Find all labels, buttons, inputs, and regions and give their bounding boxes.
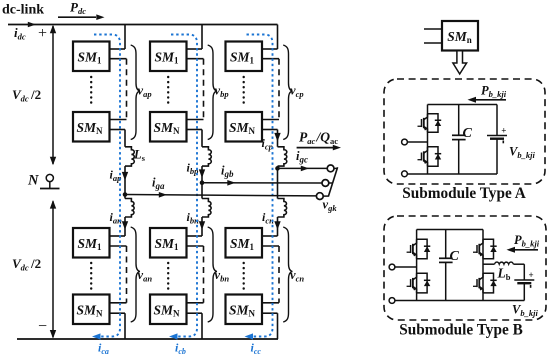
submodule SM1 upper arm phase a	[73, 42, 110, 72]
arrow idc on dc rail	[28, 22, 36, 28]
svg-text:/2: /2	[30, 256, 41, 271]
wire: dashed chain SM1..SMN lower arm phase a	[126, 246, 128, 303]
wire: right leg midpoint to inductor Lb	[483, 263, 495, 265]
brace for lower arm voltage v_bn	[208, 227, 217, 322]
wire: phase c leg from dc+ rail down to SM1	[277, 25, 279, 50]
svg-text:+: +	[501, 126, 506, 136]
wire: terminal stubs to common grid bus	[323, 168, 337, 196]
wire: to lower SM1 with arrow i_bn phase b	[199, 217, 205, 236]
submodule SMN upper arm phase c	[226, 112, 263, 142]
IGBT T2 type B left lower collector/emitter branch with anti-parallel diode loop	[407, 273, 431, 293]
label lower Vdc/2	[12, 256, 41, 273]
wire: SM1 lower terminals phase c	[262, 236, 279, 246]
wire: type A bottom rail	[407, 173, 497, 175]
wire: SMN to arm inductor with arrow i_cp phase c	[274, 130, 280, 147]
inductor Lb	[495, 262, 514, 264]
battery V_b_kji type A minus terminal plate	[490, 137, 504, 139]
wire: dashed chain SM1..SMN lower arm phase b	[203, 246, 205, 303]
submodule SMN lower arm phase b	[150, 295, 187, 325]
submodule SMN lower arm phase c	[226, 295, 263, 325]
wire: inductor to midpoint node with arrow i_ap phase a	[122, 166, 128, 194]
circulating current path i_cb (blue dashed loop) phase b	[169, 35, 197, 340]
IGBT T1 type A upper collector/emitter branch with anti-parallel diode loop	[418, 114, 442, 133]
wire: SMN upper terminals phase b	[187, 120, 204, 130]
capacitor C type B plates	[439, 258, 453, 262]
grid terminal phase c (circle)	[327, 165, 334, 172]
wire: upper terminal to half-bridge midpoint (type A)	[407, 141, 427, 143]
dotted continuation marks upper arm phase b	[167, 77, 169, 107]
submodule SM1 lower arm phase b	[150, 228, 187, 258]
submodule SM1 lower arm phase a	[73, 228, 110, 258]
wire: dashed chain SM1..SMN lower arm phase c	[278, 246, 280, 303]
label P_b_kji (type A) with arrow	[468, 84, 507, 103]
wire: phase b output line i_gb to grid terminal	[202, 180, 322, 186]
svg-text:Submodule Type B: Submodule Type B	[399, 322, 523, 339]
input terminal lower (type B)	[389, 298, 395, 304]
wire: capacitor branch type B	[445, 230, 447, 301]
capacitor C type A plates	[452, 135, 466, 139]
submodule SMN upper arm phase a	[73, 112, 110, 142]
battery V_b_kji type B polarity marks	[529, 270, 534, 288]
wire: positive dc rail	[8, 24, 278, 26]
dotted continuation marks lower arm phase c	[242, 263, 244, 292]
arm inductor lower arm phase c	[278, 199, 287, 218]
arm inductor Ls upper arm phase b	[202, 147, 211, 166]
wire: SM1 upper terminals phase c	[262, 49, 279, 59]
svg-text:/2: /2	[30, 87, 41, 102]
wire: SMN lower terminals phase b	[187, 303, 204, 313]
IGBT T2 type A lower collector/emitter branch with anti-parallel diode loop	[418, 147, 442, 167]
wire: upper terminal to left leg midpoint (type B)	[395, 266, 417, 268]
grid terminal phase b (circle)	[322, 180, 329, 187]
dotted continuation marks upper arm phase c	[242, 77, 244, 107]
wire: lower leg to dc- rail phase b	[201, 313, 203, 339]
wire: SMN upper terminals phase a	[110, 120, 127, 130]
svg-text:C: C	[450, 249, 460, 264]
wire: lower leg to dc- rail phase a	[124, 313, 126, 339]
svg-text:+: +	[529, 270, 534, 280]
label Pdc with power-flow arrow	[58, 0, 105, 20]
dashed enclosure submodule type B	[384, 216, 546, 320]
dotted continuation marks lower arm phase b	[167, 263, 169, 292]
wire: inductor to battery branch type B	[513, 264, 524, 300]
submodule SMN lower arm phase a	[73, 295, 110, 325]
submodule SM1 upper arm phase c	[226, 42, 263, 72]
wire: phase c output line i_gc to grid terminal	[278, 166, 328, 172]
brace for upper arm voltage v_ap	[131, 45, 140, 140]
submodule SMN upper arm phase b	[150, 112, 187, 142]
wire: SM1 lower terminals phase a	[110, 236, 127, 246]
label upper Vdc/2	[12, 87, 41, 104]
svg-text:Submodule Type A: Submodule Type A	[402, 185, 526, 202]
dotted continuation marks upper arm phase a	[90, 77, 92, 107]
wire: midpoint node down to lower arm inductor phase b	[201, 183, 203, 199]
arm inductor Ls upper arm phase a	[125, 147, 134, 166]
wire: to lower SM1 with arrow i_an phase a	[122, 217, 128, 236]
arm inductor Ls upper arm phase c	[278, 147, 287, 166]
wire: type B top rail	[417, 229, 483, 231]
wire: type B right leg	[482, 230, 484, 301]
junction node phase b midpoint	[200, 180, 205, 185]
hollow expansion arrow from SMn to submodule detail	[453, 51, 467, 74]
circulating current path i_cc (blue dashed loop) phase c	[245, 35, 273, 340]
svg-text:C: C	[463, 126, 473, 141]
brace for upper arm voltage v_bp	[208, 45, 217, 140]
battery V_b_kji type B minus terminal plate	[517, 282, 531, 284]
label Pac/Qac with ac power arrow	[297, 130, 341, 151]
wire: battery branch type A	[496, 105, 498, 175]
wire: SMN down to arm inductor phase b	[201, 130, 203, 147]
wire: phase a leg from dc+ rail down to SM1	[124, 25, 126, 50]
svg-text:N: N	[27, 173, 39, 189]
wire: SMN lower terminals phase c	[262, 303, 279, 313]
wire: midpoint node down to lower arm inductor phase a	[124, 195, 126, 199]
wire: SMN down to arm inductor phase a	[124, 130, 126, 147]
IGBT T3 type B right upper collector/emitter branch with anti-parallel diode loop	[473, 239, 497, 259]
wire: phase b leg from dc+ rail down to SM1	[201, 25, 203, 50]
wire: capacitor branch type A	[458, 105, 460, 175]
arm inductor lower arm phase b	[202, 199, 211, 218]
wire: SM1 upper terminals phase b	[187, 49, 204, 59]
input terminal lower (type A)	[402, 171, 408, 177]
brace for upper arm voltage v_cp	[283, 45, 292, 140]
dimension arrow lower Vdc/2	[50, 200, 56, 339]
wire: lower leg to dc- rail phase c	[277, 313, 279, 339]
wire: to lower SM1 with arrow i_cn phase c	[274, 217, 280, 236]
node N neutral point symbol	[27, 173, 60, 189]
dotted continuation marks lower arm phase a	[90, 263, 92, 292]
wire: inductor to midpoint node phase c	[277, 166, 279, 168]
junction node phase c midpoint	[275, 166, 280, 171]
wire: type B left leg	[416, 230, 418, 301]
dashed enclosure submodule type A	[384, 79, 545, 184]
wire: dashed chain SM1..SMN upper arm phase b	[203, 59, 205, 120]
wire: slanted grid bus line	[328, 167, 337, 196]
wire: SM1 upper terminals phase a	[110, 49, 127, 59]
wire: SM1 lower terminals phase b	[187, 236, 204, 246]
wire: midpoint node down to lower arm inductor phase c	[277, 168, 279, 198]
submodule SM1 upper arm phase b	[150, 42, 187, 72]
dimension arrow upper Vdc/2	[50, 25, 56, 166]
arm inductor lower arm phase a	[125, 199, 134, 218]
battery V_b_kji type A plus terminal plate	[487, 135, 507, 137]
IGBT T4 type B right lower collector/emitter branch with anti-parallel diode loop	[473, 273, 497, 293]
input terminal upper (type A)	[402, 139, 408, 145]
battery V_b_kji type B plus terminal plate	[514, 279, 534, 281]
grid terminal phase a (circle)	[316, 193, 323, 200]
IGBT T1 type B left upper collector/emitter branch with anti-parallel diode loop	[407, 239, 431, 259]
submodule SMn generic block	[442, 21, 478, 51]
wire: dashed chain SM1..SMN upper arm phase c	[278, 59, 280, 120]
circulating current path i_ca (blue dashed loop) phase a	[92, 35, 120, 340]
wire: SMn terminals	[424, 29, 442, 43]
wire: SMN upper terminals phase c	[262, 120, 279, 130]
wire: negative dc rail	[17, 338, 278, 340]
wire: SMN lower terminals phase a	[110, 303, 127, 313]
wire: dashed chain SM1..SMN upper arm phase a	[126, 59, 128, 120]
wire: type B bottom rail	[395, 300, 524, 302]
junction node phase a midpoint	[123, 192, 128, 197]
svg-text:dc-link: dc-link	[2, 3, 44, 18]
wire: inductor to midpoint node with arrow i_bp phase b	[199, 166, 205, 183]
wire: type A half-bridge leg	[427, 105, 429, 175]
brace for lower arm voltage v_an	[131, 227, 140, 322]
label P_b_kji (type B) with arrow	[507, 233, 540, 253]
battery V_b_kji type A polarity marks	[501, 126, 506, 144]
wire: type A top rail	[428, 104, 498, 106]
brace for lower arm voltage v_cn	[283, 227, 292, 322]
submodule SM1 lower arm phase c	[226, 228, 263, 258]
svg-text:+: +	[38, 25, 47, 42]
wire: phase a output line i_ga to grid terminal	[125, 192, 316, 198]
svg-text:−: −	[38, 318, 47, 335]
input terminal upper (type B)	[389, 264, 395, 270]
